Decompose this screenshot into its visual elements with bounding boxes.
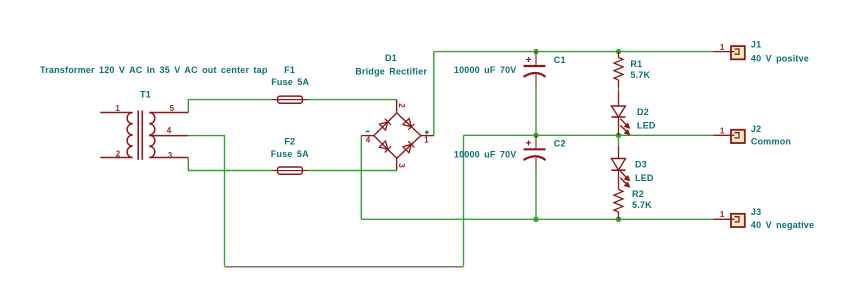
connector J1 [714,46,745,59]
transformer T1 [100,111,188,160]
wire C1 bottom lead [535,87,537,135]
svg-text:4: 4 [167,126,172,135]
wire bridge plus up to top rail [433,52,435,136]
svg-text:D2: D2 [637,107,649,117]
svg-text:1: 1 [115,104,120,113]
wire F1 to bridge top [308,99,397,101]
svg-text:C2: C2 [554,138,566,148]
svg-text:40 V positve: 40 V positve [751,53,809,63]
svg-text:T1: T1 [140,90,151,100]
svg-text:R1: R1 [630,59,642,69]
bridge diode top-left [379,119,390,130]
fuse F1 [272,96,308,103]
resistor R2 [614,190,623,220]
bridge pin 1 stub [421,135,434,137]
svg-text:D1: D1 [385,53,397,63]
capacitor C1 [524,52,546,87]
svg-text:10000 uF 70V: 10000 uF 70V [454,65,517,75]
junction R2 bottom [616,217,621,222]
capacitor C2 [524,135,546,170]
svg-text:J2: J2 [751,124,761,134]
svg-text:Common: Common [751,137,791,147]
wire R1 to D2 [618,88,620,92]
svg-text:F2: F2 [284,137,295,147]
svg-text:40 V negative: 40 V negative [751,220,814,230]
svg-text:5: 5 [170,104,175,113]
svg-text:R2: R2 [632,189,644,199]
wire F2 to bridge bottom [308,169,397,171]
D3 emission arrows [620,171,629,187]
wire C2 bottom lead [535,170,537,219]
wire mid rail to D3 [618,135,620,145]
svg-text:LED: LED [637,121,656,131]
bridge rectifier D1 [361,100,434,170]
svg-text:3: 3 [397,163,406,168]
svg-text:5.7K: 5.7K [632,200,652,210]
resistor R1 [614,52,623,88]
bridge diode bottom-right [403,141,414,152]
D2 emission arrows [620,119,629,135]
svg-text:Transformer 120 V AC In 35 V A: Transformer 120 V AC In 35 V AC out cent… [40,65,268,75]
wire bridge minus down to bottom rail [360,136,362,220]
bridge plus pin name [425,130,429,134]
svg-text:3: 3 [168,151,173,160]
wire center tap pin4 down-left vertical [188,136,224,267]
graphic line bottom return [225,266,464,268]
svg-text:C1: C1 [554,55,566,65]
svg-text:Fuse 5A: Fuse 5A [271,77,309,87]
wire top rail to J1 [434,51,714,53]
connector J2 [714,130,745,143]
svg-text:2: 2 [116,150,121,159]
bridge diode top-right [403,118,414,129]
svg-text:1: 1 [720,43,725,52]
svg-text:J1: J1 [751,40,761,50]
LED D2 [611,91,625,135]
junction C1 top [533,49,538,54]
fuse F2 [272,167,308,174]
svg-text:F1: F1 [284,65,295,75]
wire T1 pin5 to F1 [188,100,271,113]
connector J3 [714,214,745,227]
bridge pin 3 stub [396,158,398,169]
svg-text:1: 1 [720,210,725,219]
svg-text:Bridge Rectifier: Bridge Rectifier [355,67,427,77]
bridge pin 4 stub [361,135,374,137]
wire mid rail to J2 [464,134,714,136]
bridge diamond [374,113,421,158]
junction C1-C2 mid [533,133,538,138]
LED D3 [611,146,625,190]
svg-text:1: 1 [424,136,429,145]
bridge pin 2 stub [396,100,398,113]
svg-text:J3: J3 [751,207,761,217]
svg-text:LED: LED [635,173,654,183]
wire T1 pin3 to F2 [188,158,271,171]
svg-text:Fuse 5A: Fuse 5A [271,149,309,159]
junction C2 bottom [533,217,538,222]
svg-text:D3: D3 [635,160,647,170]
svg-text:1: 1 [720,127,725,136]
svg-text:4: 4 [366,136,371,145]
junction D2-D3 mid [616,133,621,138]
svg-text:2: 2 [397,103,406,108]
wire bottom rail to J3 [361,218,713,220]
bridge diode bottom-left [379,141,390,152]
svg-text:5.7K: 5.7K [630,70,650,80]
wire common vertical up to mid rail [463,135,465,266]
bridge minus pin name [366,130,370,132]
junction R1 top [616,49,621,54]
svg-text:10000 uF 70V: 10000 uF 70V [454,150,517,160]
